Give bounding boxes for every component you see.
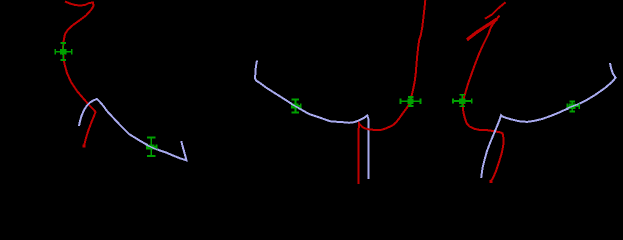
red stroke R1 end dot [83, 145, 86, 148]
green error-bar marker M3 [292, 100, 301, 113]
blue stroke B2 overlay across marker M3 [290, 103, 301, 109]
red stroke R1 (left group) [63, 2, 96, 147]
red stroke R3b (zigzag upper segment to top tip) [485, 2, 506, 18]
blue stroke B3 (right group arc with down-left tail) [481, 63, 615, 178]
green error-bar marker M2 [147, 138, 157, 157]
red stroke R3a (right zigzag lower band, two overlapped lines) [467, 19, 497, 40]
blue stroke B1 overlay across marker M2 [146, 145, 157, 150]
green error-bar marker M6 [568, 102, 580, 112]
red stroke R2 (middle, from top through marker M4 down to vertical tail) [359, 0, 426, 184]
blue stroke B1 (left group, with hook end) [79, 99, 187, 160]
blue stroke B3 overlay across marker M6 [567, 104, 579, 109]
green error-bar marker M5 [453, 95, 472, 107]
red stroke R3c (descender through marker M5, bottom hook, down tail) [463, 16, 504, 182]
red stroke R3 end dot [489, 180, 492, 183]
blue stroke B2 (middle group with vertical tail) [255, 61, 368, 180]
green error-bar marker M4 [401, 97, 421, 106]
green error-bar marker M1 [55, 43, 72, 60]
